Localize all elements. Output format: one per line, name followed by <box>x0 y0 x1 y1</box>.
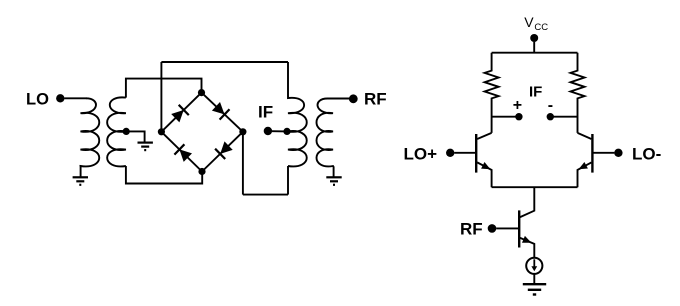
IF terminal <box>264 127 272 135</box>
transistor Q2 base bar <box>591 134 593 173</box>
svg-text:IF: IF <box>529 83 542 100</box>
transformer T2 primary winding <box>288 62 307 166</box>
transistor Q2 emitter <box>578 162 592 187</box>
wire IF- stub <box>550 116 577 118</box>
transistor Q3 base bar <box>518 210 520 247</box>
svg-text:LO+: LO+ <box>404 145 438 164</box>
wire LO+ to Q1 base <box>454 152 475 154</box>
node diamond right <box>239 128 246 135</box>
wire T2 primary bottom <box>287 166 289 195</box>
LO terminal <box>56 94 64 102</box>
node T2 primary center tap <box>283 128 290 135</box>
transistor Q1 emitter arrow <box>481 162 490 169</box>
transistor Q1 collector <box>477 133 491 139</box>
svg-text:LO-: LO- <box>632 145 661 164</box>
wire current source to ground <box>533 274 535 284</box>
diode ring edge D1 <box>161 93 201 132</box>
wire RF terminal to T2 secondary <box>327 98 350 100</box>
ground at T1 center tap <box>138 142 153 144</box>
transformer T1 primary winding <box>81 98 100 177</box>
wire IF terminal to T2 tap <box>272 130 287 132</box>
wire diamond left vertex up <box>160 62 162 132</box>
diode D3 <box>220 141 233 154</box>
LO+ terminal <box>446 149 454 157</box>
transistor Q1 emitter <box>477 162 491 187</box>
wire IF+ stub <box>492 116 519 118</box>
current source I1 <box>526 258 542 274</box>
wire T1 secondary top to diamond top <box>126 79 202 98</box>
diode D1 <box>171 110 184 122</box>
wire LO terminal to T1 primary <box>64 97 86 99</box>
svg-text:RF: RF <box>364 89 387 108</box>
svg-text:CC: CC <box>534 22 548 33</box>
ground at current source <box>523 283 546 285</box>
RF terminal <box>349 94 358 103</box>
IF+ terminal <box>515 113 522 120</box>
resistor RC2 <box>571 53 585 133</box>
diode D4 <box>179 149 192 162</box>
wire center tap to ground <box>126 131 144 142</box>
wire bottom rail to T2 primary <box>243 194 288 196</box>
wire collector supply rail <box>492 52 578 54</box>
IF- terminal <box>547 113 554 120</box>
diode ring edge D3 <box>202 132 243 172</box>
node diamond top <box>198 89 205 96</box>
svg-text:+: + <box>513 97 522 114</box>
wire Vcc to rail <box>533 42 535 53</box>
wire T1 secondary bottom rail <box>126 166 202 184</box>
svg-text:LO: LO <box>26 90 49 108</box>
wire emitter bus <box>492 186 578 188</box>
transistor Q2 emitter arrow <box>579 162 588 169</box>
transistor Q1 base bar <box>475 134 477 173</box>
node diamond bottom <box>198 168 205 175</box>
diode ring edge D4 <box>161 132 202 172</box>
diode D2 <box>212 102 225 114</box>
svg-text:-: - <box>548 97 553 114</box>
wire RF to Q3 base <box>496 227 518 229</box>
svg-text:IF: IF <box>258 103 273 122</box>
transistor Q2 collector <box>578 133 592 139</box>
RF input terminal <box>488 224 497 233</box>
wire top rail to T2 primary <box>161 61 288 63</box>
svg-text:V: V <box>524 14 534 30</box>
transformer T1 secondary winding <box>107 97 126 166</box>
ground at T2 secondary <box>326 176 341 178</box>
node diamond left <box>158 128 165 135</box>
wire LO- to Q2 base <box>593 152 614 154</box>
Vcc terminal <box>530 34 538 42</box>
svg-text:RF: RF <box>460 220 483 239</box>
LO- terminal <box>614 149 622 157</box>
current source arrow <box>533 259 535 267</box>
wire bus to Q3 collector <box>520 187 535 217</box>
diode ring edge D2 <box>202 93 243 132</box>
ground at T1 primary <box>73 176 88 178</box>
transistor Q3 emitter <box>520 238 535 258</box>
resistor RC1 <box>485 53 499 133</box>
wire diamond right vertex down <box>242 132 244 195</box>
node T1 secondary center tap <box>123 128 130 135</box>
transformer T2 secondary winding <box>317 99 334 177</box>
transistor Q3 emitter arrow <box>522 236 531 243</box>
